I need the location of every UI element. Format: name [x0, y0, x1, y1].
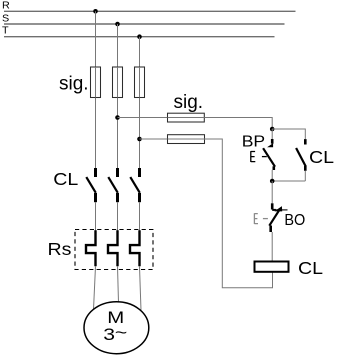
svg-text:Rs: Rs — [48, 239, 72, 259]
phase bus T — [2, 26, 275, 37]
node on bus R — [93, 9, 98, 14]
wire from F4 to right drop — [204, 118, 272, 130]
svg-text:CL: CL — [298, 258, 323, 278]
phase bus R — [2, 1, 296, 12]
contactor CL pole 1 — [86, 168, 96, 202]
wire L2 contact to overload — [117, 202, 119, 230]
svg-text:CL: CL — [53, 169, 78, 189]
fuse F5 control horizontal — [168, 135, 205, 144]
wire to aux branch top — [272, 129, 305, 139]
fuse F1 — [91, 67, 101, 98]
wire from L3 tap to control fuse 2 — [140, 138, 168, 140]
wire aux branch bottom — [272, 180, 305, 182]
overload relay Rs dashed box — [75, 230, 153, 270]
push button BP (NO) — [263, 129, 275, 181]
auxiliary contact CL (hold) — [296, 139, 306, 181]
wire L2 vertical from S to fuse — [117, 24, 119, 168]
heater element 1 — [86, 230, 96, 266]
fuse F3 — [135, 67, 145, 98]
wire down to BO — [271, 181, 273, 203]
svg-text:sig.: sig. — [59, 74, 89, 95]
wire control return: right then down then to coil bottom — [205, 139, 273, 288]
node on bus T — [137, 34, 142, 39]
svg-text:BO: BO — [284, 212, 305, 230]
heater element 3 — [130, 230, 140, 266]
node tap on L3 for control return — [137, 137, 142, 142]
node tap on L2 for control — [115, 115, 120, 120]
contactor CL pole 3 — [130, 168, 140, 202]
wire L1 contact to overload — [95, 202, 97, 230]
wire L3 contact to overload — [139, 202, 141, 230]
actuator mark E- of BO (gray) — [254, 213, 268, 224]
wire L3 overload to motor — [140, 266, 142, 310]
node bottom of start branch — [270, 179, 275, 184]
svg-text:T: T — [2, 26, 9, 37]
node top of start branch — [270, 127, 275, 132]
contactor CL pole 2 — [108, 168, 118, 202]
heater element 2 — [108, 230, 118, 266]
svg-text:S: S — [2, 14, 9, 25]
wire L2 overload to motor — [118, 266, 119, 302]
svg-text:~: ~ — [115, 324, 127, 342]
actuator mark E- of BP — [251, 151, 267, 162]
svg-text:CL: CL — [309, 147, 334, 167]
push button BO (NC) — [269, 203, 287, 261]
contactor coil CL — [255, 262, 289, 272]
svg-text:sig.: sig. — [174, 92, 204, 113]
wire L1 overload to motor — [94, 266, 96, 309]
svg-text:3: 3 — [103, 326, 115, 344]
node on bus S — [115, 22, 120, 27]
svg-text:BP: BP — [242, 132, 265, 150]
fuse F2 — [113, 67, 123, 98]
svg-text:R: R — [2, 1, 10, 12]
wire control top from L2 tap to control fuse — [118, 117, 168, 119]
motor M 3~ — [84, 302, 149, 354]
wire L3 vertical from T to fuse — [139, 37, 141, 168]
wire L1 vertical from R to fuse — [95, 11, 97, 168]
phase bus S — [2, 14, 285, 25]
fuse F4 control horizontal — [168, 113, 205, 122]
